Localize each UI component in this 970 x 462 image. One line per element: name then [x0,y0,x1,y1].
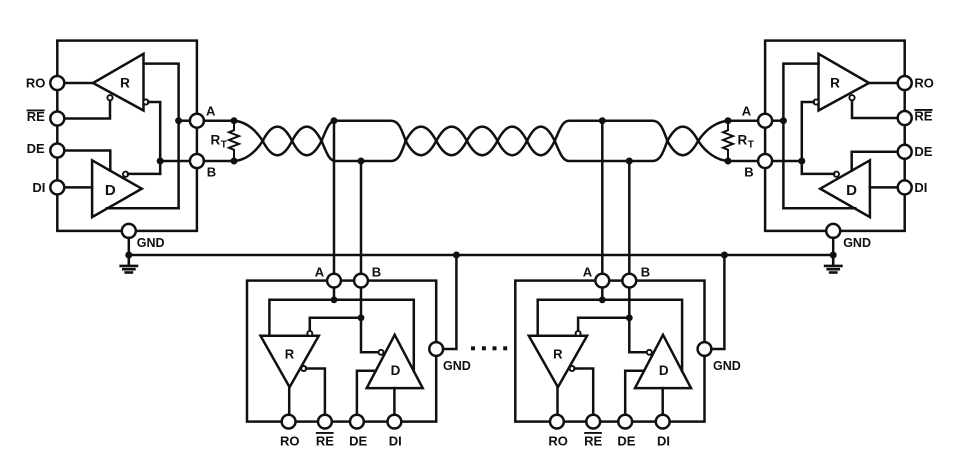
junction RT top (node A right) [725,117,732,124]
svg-text:DE: DE [349,433,367,448]
receiver inverting input bubble (U2) [814,99,819,104]
pin DE (U3) [350,415,364,429]
twisted pair: twist lens 8 [667,127,698,156]
wire R output to RO pin (U4) [556,387,559,415]
wire node A to D output (U3) [334,300,414,371]
driver inverting output bubble (U4) [647,350,652,355]
wire RO to R output [64,82,93,85]
pin RO (U4) [550,415,564,429]
pin A (U2) [758,114,772,128]
svg-text:DI: DI [32,180,45,195]
transceiver U2 box (top-right) [765,41,905,231]
pin DI (U2) [898,180,912,194]
wire GND pin to ground bus (U3) [443,255,456,349]
svg-text:GND: GND [843,236,871,250]
wire DI pin to D input (U3) [393,388,396,415]
wire node A to R input (U3) [269,300,334,336]
driver inverting output bubble (U1) [123,172,128,177]
svg-text:R: R [738,132,748,147]
wire DI to D input [64,186,92,189]
twisted pair: twist lens 1 [263,127,292,156]
wire pin B to node B (U4) [628,287,631,318]
junction stub A on bus wire A (U4) [599,117,606,124]
svg-text:A: A [742,104,752,119]
wire stub A to transceiver U4 [601,121,604,274]
driver inverting output bubble (U2) [834,172,839,177]
driver inverting output bubble (U3) [379,350,384,355]
transceiver U4 box (bottom-right) [515,281,704,422]
svg-text:R: R [830,76,840,91]
wire R enable to RE pin (U3) [306,369,325,415]
twisted pair: twist lens 6 [498,127,528,156]
wire stub A to transceiver U3 [333,121,336,274]
junction RT top (node A) [231,117,238,124]
wire RE to R enable [64,100,110,118]
svg-text:B: B [372,264,381,279]
svg-text:DI: DI [389,433,402,448]
wire R enable to RE pin (U4) [574,369,593,415]
ground symbol (left) [121,255,137,273]
wire DE to D enable (U2) [852,152,898,171]
pin DE (U4) [618,415,632,429]
junction node A (U2) [780,117,787,124]
driver D (U3) [367,335,423,388]
junction stub B on bus wire B [358,158,365,165]
wire D inverting output to node B (U2) [802,173,834,176]
svg-text:GND: GND [713,359,741,373]
svg-text:RO: RO [548,433,568,448]
junction stub B on bus wire B (U4) [626,158,633,165]
svg-text:RO: RO [280,433,300,448]
twisted pair: open section 2 (wire B) [555,141,668,161]
wire DE pin to D enable (U4) [625,371,644,415]
pin DE (U1) [50,144,64,158]
label RE overline (U4) [584,432,602,434]
receiver enable bubble (U2) [849,95,854,100]
pin DI (U4) [656,415,670,429]
svg-text:A: A [206,104,216,119]
svg-text:DE: DE [27,141,45,156]
svg-text:D: D [391,363,401,378]
wire GND pin to ground bus (U2) [832,238,835,255]
twisted pair: twist lens 7 [527,127,555,156]
wire node A to D output (U4) [602,300,682,371]
receiver inverting input bubble (U4) [576,331,581,336]
svg-text:R: R [120,76,130,91]
wire node B to R inverting input (U3) [310,318,361,331]
receiver enable bubble (U1) [107,95,112,100]
driver D (U2) [820,160,870,217]
receiver R (U1) [93,54,144,111]
pin RE (U4) [586,415,600,429]
svg-text:D: D [846,182,857,199]
svg-text:T: T [748,139,754,150]
svg-text:R: R [285,346,295,361]
receiver inverting input bubble (U3) [307,331,312,336]
twisted pair: converge to right termination [698,121,728,161]
pin RE (U2) [898,111,912,125]
pin B (U4) [622,274,636,288]
ground symbol (right) [825,255,841,273]
wire pin A to node A (U4) [601,287,604,300]
svg-text:DE: DE [617,433,635,448]
svg-text:GND: GND [443,359,471,373]
junction node A (U4) [599,296,606,303]
wire D inverting output to node B [128,173,160,176]
wire node B to D inverting output (U3) [361,318,379,353]
svg-text:A: A [315,264,325,279]
transceiver U1 box (top-left) [57,41,197,231]
receiver R (U2) [819,54,870,111]
wire R inverting input to node B [148,102,160,174]
pin RE (U1) [50,112,64,126]
svg-text:R: R [211,132,221,147]
twisted pair: twist lens 2 [292,127,321,156]
label RE overline (U2) [915,109,933,111]
ground bus wire [129,254,833,257]
pin B (U2) [758,154,772,168]
junction GND on bus (U4) [721,252,728,259]
pin B (U1) [190,154,204,168]
receiver inverting input bubble (U1) [143,99,148,104]
twisted pair: open section 2 (wire A) [555,121,668,141]
pin GND (U3) [429,342,443,356]
pin RO (U1) [50,76,64,90]
svg-text:B: B [744,165,753,180]
svg-text:DE: DE [914,144,932,159]
wire pin A (U1) to termination [204,119,234,122]
svg-text:D: D [105,182,116,199]
resistor RT (right termination) [723,121,733,161]
svg-text:R: R [553,346,563,361]
twisted pair: twist lens 3 [406,127,437,156]
junction RT bottom (node B) [231,158,238,165]
label RE overline (U1) [27,109,45,111]
pin GND (U2) [826,224,840,238]
wire pin B (U1) to termination [204,160,234,163]
wire DE pin to D enable (U3) [357,371,376,415]
twisted pair: open section 1 (wire B) [322,141,406,161]
wire DE to D enable [64,151,110,171]
pin A (U4) [595,274,609,288]
wire RE to R enable (U2) [852,100,898,118]
wire D noninverting output to node A (U2) [783,207,855,210]
wire DI pin to D input (U4) [661,388,664,415]
svg-text:RE: RE [316,433,334,448]
pin GND (U4) [698,342,712,356]
transceiver U3 box (bottom-left) [247,281,436,422]
wire node B to pin B (U2) [772,160,802,163]
wire DI to D input (U2) [870,186,898,189]
svg-text:DI: DI [657,433,670,448]
pin B (U3) [354,274,368,288]
junction node A (U1) [175,117,182,124]
junction GND (U2) [830,252,837,259]
wire R inverting input to node B (U2) [802,102,814,174]
label RE overline (U3) [316,432,334,434]
receiver enable bubble (U3) [301,366,306,371]
ellipsis dots (more transceivers) [471,346,507,350]
wire pin A to node A (U3) [333,287,336,300]
svg-text:B: B [207,165,216,180]
driver D (U1) [92,160,142,217]
junction RT bottom (node B right) [725,158,732,165]
svg-text:RO: RO [26,76,46,91]
wire node A to pin A [179,119,191,122]
wire D noninverting output to node A [107,207,179,210]
pin DI (U1) [50,180,64,194]
pin A (U3) [327,274,341,288]
receiver enable bubble (U4) [570,366,575,371]
pin RO (U3) [282,415,296,429]
junction stub A on bus wire A [331,117,338,124]
wire pin B to node B (U3) [360,287,363,318]
svg-text:RE: RE [584,433,602,448]
wire R noninverting input to node A [144,64,179,209]
wire GND pin to ground bus (U4) [711,255,724,349]
junction node A (U3) [331,296,338,303]
junction node B (U2) [798,158,805,165]
wire termination to pin B (U2) [728,160,758,163]
driver D (U4) [635,335,691,388]
twisted pair: twist lens 4 [436,127,467,156]
pin RE (U3) [318,415,332,429]
junction node B (U1) [157,158,164,165]
wire node B to pin B [160,160,190,163]
svg-text:RO: RO [914,76,934,91]
svg-text:A: A [583,264,593,279]
pin GND (U1) [122,224,136,238]
receiver R (U4) [529,336,587,388]
wire termination to pin A (U2) [728,119,758,122]
resistor RT (left termination) [229,121,239,161]
receiver R (U3) [261,336,319,388]
wire stub B to transceiver U4 [628,161,631,274]
svg-text:T: T [221,139,227,150]
junction node B (U4) [626,314,633,321]
wire node B to D inverting output (U4) [629,318,647,353]
wire node A to R input (U4) [538,300,603,336]
svg-text:DI: DI [914,180,927,195]
svg-text:B: B [641,264,650,279]
junction GND (U1) [125,252,132,259]
wire node A to pin A (U2) [772,119,784,122]
pin A (U1) [190,114,204,128]
pin DI (U3) [388,415,402,429]
svg-text:GND: GND [137,236,165,250]
wire GND pin to ground bus [128,238,131,255]
junction node B (U3) [358,314,365,321]
wire node B to R inverting input (U4) [578,318,629,331]
junction GND on bus (U3) [453,252,460,259]
twisted pair: twist lens 5 [467,127,498,156]
pin RO (U2) [898,76,912,90]
wire R output to RO (U2) [869,82,898,85]
pin DE (U2) [898,145,912,159]
wire R noninverting input to node A (U2) [783,64,818,209]
twisted pair: converge from left termination [234,121,263,161]
wire R output to RO pin (U3) [288,387,291,415]
twisted pair: open section 1 (wire A) [322,121,406,141]
wire stub B to transceiver U3 [360,161,363,274]
svg-text:D: D [659,363,669,378]
